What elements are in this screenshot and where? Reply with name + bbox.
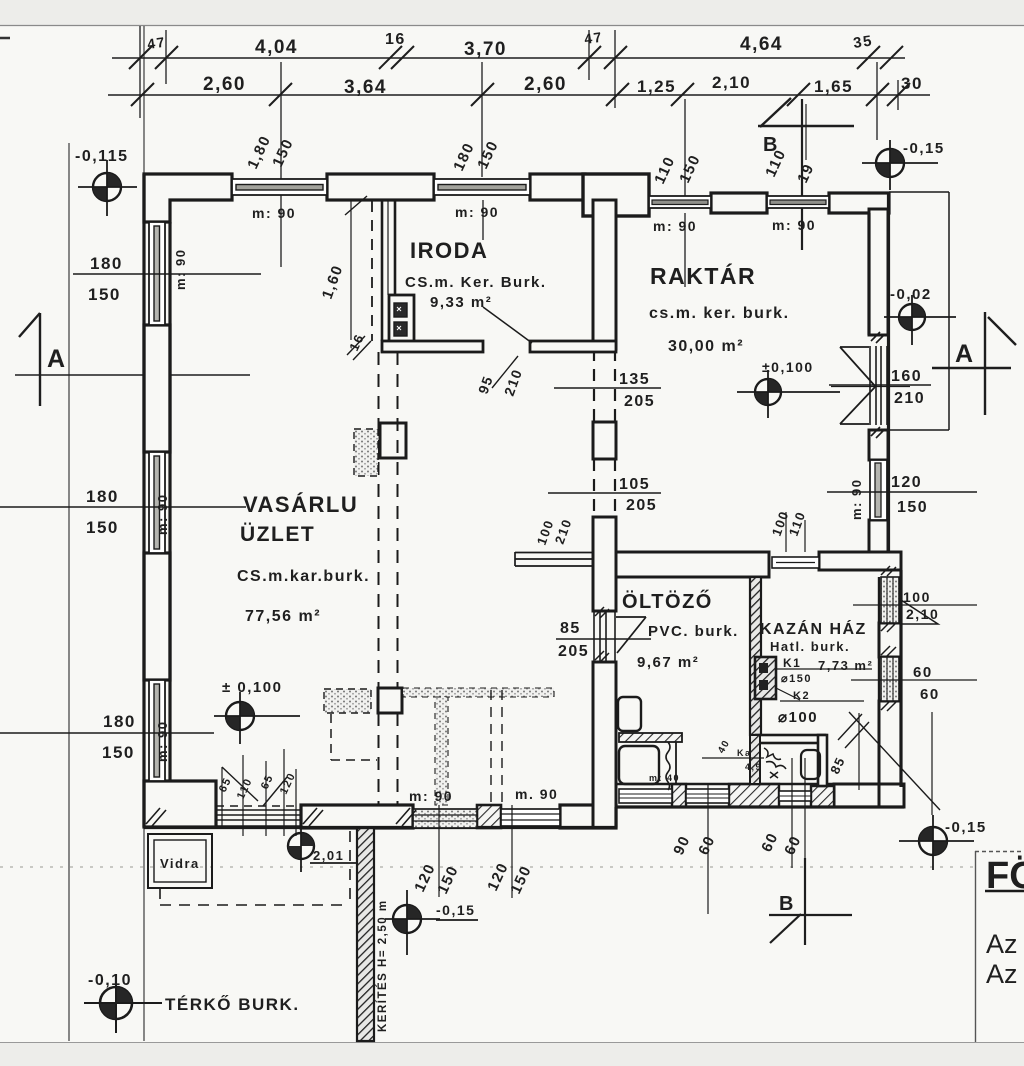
witness lines raktar bottom [786,512,805,552]
bottom-right corner block [879,784,904,807]
svg-text:205: 205 [624,393,655,410]
kazan right wall vent window 2 (60/60) [881,657,899,701]
chimney block [755,657,776,699]
window left L1 (180/150) [149,222,165,325]
shop interior column on dashed axis [378,688,402,713]
right wall door (160/210) opening [870,346,887,425]
left wall pier 2 [144,553,170,680]
svg-text:m: 90: m: 90 [653,218,697,234]
svg-text:180: 180 [86,487,119,506]
center wall door (85/205) opening [594,611,615,662]
dim 120/150 right window [827,491,977,493]
svg-text:ÜZLET: ÜZLET [240,523,315,546]
witness right end [876,62,878,140]
dim 160/210 right door [829,384,931,386]
svg-text:30: 30 [901,74,923,93]
marker top-left -0,115 [78,160,137,216]
svg-text:150: 150 [897,499,928,516]
right wall pier below window [869,520,888,554]
dimension chain 2 (top lower) line [108,94,930,96]
svg-text:A: A [47,345,67,373]
svg-text:cs.m. ker. burk.: cs.m. ker. burk. [649,305,790,322]
svg-text:4,9: 4,9 [745,762,762,772]
svg-text:Az: Az [986,959,1018,989]
oltozo curtain squiggle [666,742,670,790]
svg-text:TÉRKŐ BURK.: TÉRKŐ BURK. [165,995,300,1014]
svg-text:m: 90: m: 90 [155,721,170,762]
svg-text:m: 40: m: 40 [649,773,680,783]
center wall dashed opening upper [594,349,615,517]
witness line left of iroda [350,201,352,340]
svg-text:-0,15: -0,15 [436,902,475,918]
marker bottom-right -0,15 [899,815,974,870]
svg-text:150: 150 [86,518,119,537]
window top C (110/150) [649,196,711,208]
raktar bottom wall window [772,557,819,568]
svg-text:K2: K2 [793,690,810,702]
svg-text:Az: Az [986,929,1018,959]
shop dashed partition axes [379,352,398,805]
bottom wall block right of window 2 [560,805,616,828]
dim 85/205 oltozo door [556,638,651,640]
wc leader [702,757,764,759]
horizontal stipple strip [403,688,554,697]
svg-text:135: 135 [619,371,650,388]
svg-text:100: 100 [903,589,931,605]
top wall right pier between windows C,D [711,193,767,213]
svg-text:3,64: 3,64 [344,77,387,98]
top wall pier between windows A,B [327,174,434,200]
svg-text:4,04: 4,04 [255,37,298,58]
stipple square at mid column [354,429,378,476]
dim 60/60 kazan vent2 [851,679,977,681]
svg-text:K1: K1 [783,656,801,670]
center wall column [593,422,616,459]
svg-text:Vidra: Vidra [160,856,200,871]
bottom wall left section: entrance block [301,805,413,828]
section marker B top [758,98,854,127]
window left L3 (180/150) [149,680,165,781]
dim 105/205 center [548,492,661,494]
dim 180/150 left B [0,506,246,508]
svg-text:-0,02: -0,02 [890,286,932,303]
center door hatch marks [595,607,609,662]
top scanner band [0,0,1024,25]
svg-text:2,60: 2,60 [524,74,567,95]
left wall pier 1 [144,325,170,452]
wc interior squiggles [764,748,786,778]
bottom wall window 2 (m:90) [501,809,560,826]
top wall junction block [583,174,649,216]
svg-text:150: 150 [102,743,135,762]
section marker B bottom [769,858,852,945]
wc fixture [801,750,820,779]
svg-text:±0,100: ±0,100 [762,359,814,375]
svg-text:m: 90: m: 90 [849,479,864,520]
witness line window B [481,62,483,177]
svg-text:A: A [955,340,975,368]
svg-text:180: 180 [103,712,136,731]
hatch marks at right door jambs [871,332,885,438]
svg-text:1,25: 1,25 [637,77,676,96]
bottom rotated dims oltozo 90/60 [707,784,709,914]
marker bottom-middle -0,15 [385,890,478,955]
marker top-right -0,15 [862,140,938,190]
section marker A left [15,313,250,406]
right wall door swing triangles [831,347,910,424]
svg-text:-0,115: -0,115 [75,148,128,165]
svg-text:150: 150 [88,285,121,304]
hatched piers [357,577,834,1041]
svg-text:⌀100: ⌀100 [778,709,818,726]
svg-text:77,56 m²: 77,56 m² [245,608,321,625]
hatched pier bottom wall small [477,805,501,828]
building outline edges (thick) [144,174,904,828]
marker shop +-0,100 [214,692,300,744]
svg-text:KERÍTÉS H= 2,50 m: KERÍTÉS H= 2,50 m [376,899,389,1032]
witness line window C [684,99,686,196]
svg-text:2,10: 2,10 [712,73,751,92]
iroda left wall [382,201,395,341]
window top B (180/150) [434,179,530,195]
center wall upper solid (iroda/raktar) [593,200,616,349]
svg-text:m: 90: m: 90 [409,788,453,804]
bottom rotated dim 120/150 pair 1 [438,805,440,897]
svg-text:m. 90: m. 90 [515,786,558,802]
kazan corner diagonal + 85 [838,712,940,810]
svg-text:-0,15: -0,15 [945,819,987,836]
fence wall hatched [357,828,374,1041]
dimension chain 1 (top) line [112,57,905,59]
raktar bottom wall right block [819,552,901,570]
kazan right wall vent window 1 (100/210) [881,577,899,623]
shop interior column mid-height [380,423,406,458]
svg-text:205: 205 [558,643,589,660]
title block [975,851,977,1042]
right wall faces upper [887,193,890,553]
svg-text:180: 180 [90,254,123,273]
svg-text:-0,10: -0,10 [88,972,132,989]
svg-text:-0,15: -0,15 [903,140,945,157]
right wall faces lower [899,570,902,787]
witness line window A [280,62,282,267]
hatched pier oltozo bottom 1 [672,784,686,807]
iroda bottom wall left part [382,341,483,352]
svg-text:105: 105 [619,476,650,493]
svg-text:9,33 m²: 9,33 m² [430,294,492,311]
bottom-left corner wall block [144,781,216,827]
hatch marks on entrance block ends [146,808,416,826]
marker bottom-left terko -0,10 [84,974,162,1033]
hatched pier oltozo bottom 2 [729,784,779,807]
right wall block between door and window [869,430,888,460]
svg-text:Hatl. burk.: Hatl. burk. [770,639,850,654]
left vertical guideline 1 [68,143,70,1041]
svg-text:CS.m. Ker. Burk.: CS.m. Ker. Burk. [405,274,547,291]
svg-text:205: 205 [626,497,657,514]
iroda door dimension slash [492,356,518,388]
right wall upper segment [869,209,888,335]
svg-text:47: 47 [146,34,167,52]
left vertical guideline 2 (wall face extended) [143,26,145,1041]
kazan right wall lower pier [879,701,901,787]
iroda door leaf diagonal [483,307,532,343]
iroda electric box with two panels [389,295,414,350]
svg-text:60: 60 [920,686,940,703]
section marker A right [932,312,1016,415]
bottom scanner band [0,1042,1024,1066]
vidra dashed enclosure [160,831,350,905]
hatched pier oltozo bottom 3 [811,786,834,807]
svg-text:RAKTÁR: RAKTÁR [650,262,756,289]
bottom wall window 1 (m:90) [413,809,477,828]
svg-text:CS.m.kar.burk.: CS.m.kar.burk. [237,568,370,585]
dashed pair right of stipple strip [491,690,502,803]
bottom rotated dims wc 60/60 [791,758,793,868]
right wall window (120/150) [870,460,887,520]
small dash top-left margin [0,37,10,40]
svg-text:VASÁRLU: VASÁRLU [243,492,358,517]
entrance door sill (bottom wall left) [216,810,301,826]
oltozo shower tray [619,746,659,784]
shop serving counter [515,552,593,566]
top-left corner wall block [144,174,232,222]
dim 100/210 kazan vent [853,604,977,606]
window top D (110/150) [767,196,829,208]
top wall pier right of window B [530,174,585,200]
svg-text:2,60: 2,60 [203,74,246,95]
svg-text:160: 160 [891,368,922,385]
svg-text:m: 90: m: 90 [772,217,816,233]
right side canopy outline [888,192,949,430]
oltozo bottom window W1 [619,789,672,803]
oltozo bottom window W3 [779,791,811,801]
svg-text:47: 47 [583,29,604,47]
chain1 tick marks [129,46,903,69]
dim 135/205 center [554,387,661,389]
kazan leader lines [776,669,872,701]
svg-text:KAZÁN HÁZ: KAZÁN HÁZ [760,619,867,638]
svg-text:1,65: 1,65 [814,77,853,96]
bottom rotated dim 120/150 pair 2 [511,805,513,898]
dashed U below stipple square [331,714,377,760]
iroda left dashed axis [371,201,373,341]
svg-text:30,00 m²: 30,00 m² [668,338,744,355]
svg-text:m: 90: m: 90 [155,494,170,535]
svg-text:± 0,100: ± 0,100 [222,679,282,696]
dim 180/150 left C [0,732,214,734]
wc room walls [750,735,827,786]
svg-text:9,67 m²: 9,67 m² [637,654,699,671]
witness stubs for 47 middle [588,30,590,80]
svg-text:35: 35 [852,32,874,52]
center door swing triangle into oltozo [616,617,646,653]
oltozo bench hatched [619,733,682,742]
vidra box [148,834,212,888]
svg-text:2,01: 2,01 [313,848,344,863]
kazan vent door swing triangle [901,600,938,624]
svg-text:2,10: 2,10 [906,606,939,622]
left wall faces [142,174,145,827]
svg-text:Ka: Ka [737,748,752,758]
svg-text:16: 16 [385,31,406,48]
svg-text:4,64: 4,64 [740,34,783,55]
marker raktar +-0,100 [737,370,840,418]
svg-text:m: 90: m: 90 [252,205,296,221]
svg-text:m: 90: m: 90 [173,249,188,290]
svg-text:60: 60 [913,664,933,681]
dim 180/150 left A [73,273,261,275]
hatch marks kazan wall blocks [881,566,896,711]
center wall mid solid [593,517,616,611]
top-right corner wall block [829,193,889,213]
witness stubs for 47 at left [139,26,141,118]
oltozo bottom window W2 [686,789,729,803]
svg-text:PVC. burk.: PVC. burk. [648,623,739,640]
chain2 tick marks [131,83,910,106]
bottom wall (oltozo/kazan) block left of corner [834,784,879,807]
center wall lower solid to bottom [593,662,616,828]
window left L2 (180/150) [149,452,165,553]
svg-text:85: 85 [560,620,581,637]
svg-text:7,73 m²: 7,73 m² [818,658,873,673]
stipple square at lower column [324,689,371,713]
bottom wall lower-right faces [616,805,904,808]
vertical stipple strip [435,697,448,805]
oltozo locker [618,697,641,731]
svg-text:3,70: 3,70 [464,39,507,60]
svg-text:B: B [779,893,795,915]
faint ground dotted line across sheet [0,866,974,868]
marker bottom-left of plan -2,01 [288,822,356,872]
svg-text:IRODA: IRODA [410,238,488,263]
svg-text:210: 210 [894,390,925,407]
svg-text:m: 90: m: 90 [455,204,499,220]
raktar bottom wall / oltozo top wall band [616,552,769,577]
marker right -0,02 [884,295,956,345]
svg-text:ÖLTÖZŐ: ÖLTÖZŐ [622,590,713,613]
iroda bottom wall right part [530,341,616,352]
window top A (180/150) [232,179,327,195]
section line B-B top [801,99,803,250]
svg-text:⌀150: ⌀150 [781,673,812,685]
bottom witness lines and rotated dims left door [222,749,296,836]
kazan right wall block mid [879,623,901,657]
bottom wall left faces [144,826,616,829]
kazan-oltozo hatched partition wall [750,577,761,735]
svg-text:120: 120 [891,474,922,491]
